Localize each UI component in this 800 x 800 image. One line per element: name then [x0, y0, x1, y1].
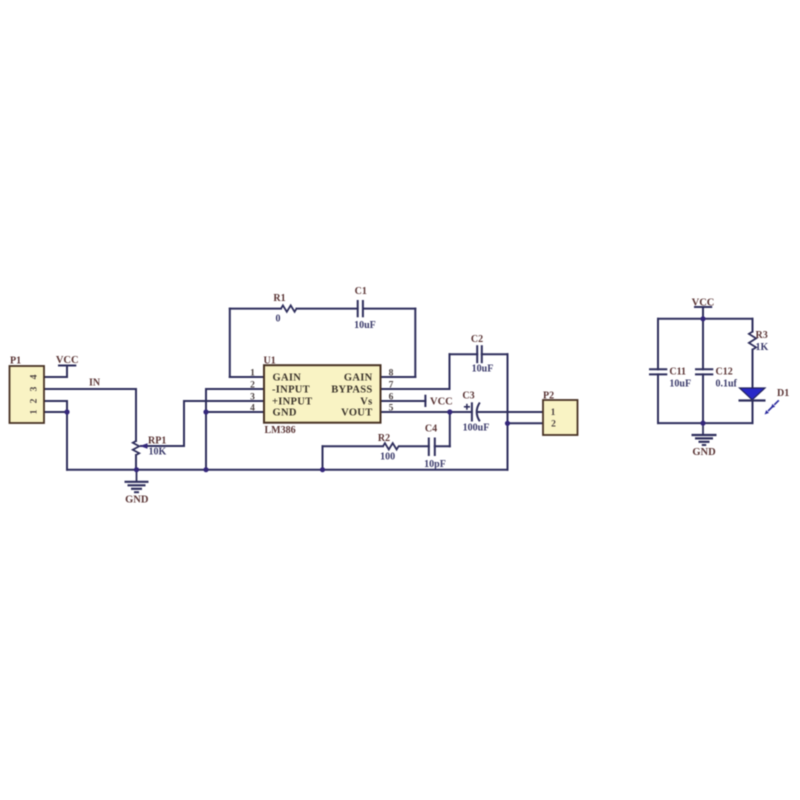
wire R2 to C4 [399, 445, 429, 447]
capacitor C4 [424, 423, 446, 470]
wire ground riser x206 [205, 389, 207, 470]
capacitor C11 [649, 366, 691, 389]
wire P1 pin1 stub [44, 411, 67, 413]
svg-text:2: 2 [551, 419, 556, 429]
svg-text:P1: P1 [10, 356, 21, 367]
capacitor C2 [471, 334, 493, 375]
power VCC right section [692, 298, 715, 309]
wire RP1 wiper horizontal [141, 445, 184, 447]
svg-text:GAIN: GAIN [344, 373, 373, 384]
svg-text:10uF: 10uF [669, 379, 691, 390]
svg-text:0: 0 [276, 314, 281, 325]
wire R3 top riser [752, 319, 754, 332]
wire C3 to P2 pin1 [478, 411, 544, 413]
svg-text:P2: P2 [543, 391, 554, 402]
svg-text:10uF: 10uF [354, 320, 376, 331]
svg-text:LM386: LM386 [265, 425, 296, 436]
svg-text:C4: C4 [425, 423, 437, 434]
wire R2 left [323, 445, 384, 447]
svg-text:10pF: 10pF [424, 459, 446, 470]
svg-text:3: 3 [30, 386, 40, 391]
svg-text:5: 5 [389, 404, 394, 414]
wire VOUT to C3 [381, 411, 472, 413]
svg-text:1: 1 [250, 369, 255, 379]
wire right rail riser [507, 354, 509, 470]
capacitor C1 [354, 286, 376, 331]
svg-text:Vs: Vs [360, 397, 372, 408]
wire C11 top riser [657, 319, 659, 370]
resistor R2 [378, 433, 399, 463]
wire P1 pin2 stub [44, 400, 67, 402]
op-amp IC U1 LM386 [250, 356, 394, 437]
svg-text:3: 3 [250, 393, 255, 403]
wire U1 GND stub [206, 411, 264, 413]
power VCC at U1 pin6 [425, 395, 452, 408]
svg-text:BYPASS: BYPASS [331, 385, 372, 396]
svg-text:C2: C2 [471, 334, 483, 345]
wire P2 pin2 [508, 422, 544, 424]
wire IN drop to RP1 [135, 389, 137, 441]
junction GND rail at RP1 [134, 467, 139, 472]
resistor R3 [749, 330, 769, 353]
svg-text:C11: C11 [669, 366, 686, 377]
connector P1 [10, 356, 45, 424]
wire R3 to D1 [752, 350, 754, 388]
svg-text:R3: R3 [756, 330, 768, 341]
wire RP1 bottom to rail [135, 455, 137, 470]
potentiometer RP1 [133, 436, 167, 458]
resistor R1 [273, 293, 296, 325]
ground symbol GND left [125, 470, 149, 506]
svg-text:R1: R1 [273, 293, 285, 304]
wire R1 to C1 [297, 308, 358, 310]
svg-text:GND: GND [692, 447, 716, 458]
junction VOUT node [447, 409, 452, 414]
svg-text:100uF: 100uF [463, 423, 490, 434]
svg-text:U1: U1 [264, 356, 276, 367]
ground symbol GND right [692, 423, 717, 458]
wire net IN from P1 pin3 [44, 388, 136, 390]
svg-text:8: 8 [389, 369, 394, 379]
capacitor C12 [695, 366, 738, 389]
wire C1 right [363, 308, 415, 310]
capacitor C3 polarized [462, 391, 489, 434]
svg-text:100: 100 [380, 452, 395, 463]
wire feedback right riser [414, 309, 416, 377]
wire top loop left [230, 308, 281, 310]
svg-text:D1: D1 [777, 388, 789, 399]
svg-text:IN: IN [89, 378, 101, 389]
svg-text:VCC: VCC [430, 397, 453, 408]
wire D1 to rail [752, 401, 754, 423]
power VCC at P1 [56, 355, 79, 366]
svg-text:7: 7 [389, 381, 394, 391]
svg-text:C1: C1 [355, 286, 367, 297]
wire C2 left [450, 353, 478, 355]
wire U1 pin6 stub to VCC [381, 400, 426, 402]
svg-text:2: 2 [250, 381, 255, 391]
svg-text:6: 6 [389, 393, 394, 403]
wire VCC riser right section [702, 307, 704, 319]
LED D1 [739, 388, 790, 415]
svg-text:10K: 10K [149, 447, 167, 458]
wire -INPUT stub [206, 388, 264, 390]
junction P2 pin2 node [505, 421, 510, 426]
wire C2 right [482, 353, 508, 355]
connector P2 [543, 391, 578, 436]
junction gnd riser at rail [203, 467, 208, 472]
wire VCC riser at P1 [66, 366, 68, 378]
wire P1 ground riser [66, 401, 68, 470]
svg-text:4: 4 [30, 374, 40, 379]
wire to +INPUT [184, 400, 264, 402]
svg-text:C12: C12 [716, 366, 733, 377]
wire U1 pin7 stub [381, 388, 450, 390]
svg-text:1K: 1K [756, 342, 769, 353]
wire zobel riser [449, 412, 451, 446]
junction zobel at rail [320, 467, 325, 472]
junction VCC rail right [700, 316, 705, 321]
svg-text:10uF: 10uF [472, 364, 494, 375]
svg-text:1: 1 [551, 408, 556, 418]
svg-text:R2: R2 [378, 433, 390, 444]
wire bottom rail right section [658, 422, 753, 424]
wire C12 top riser [702, 319, 704, 370]
wire U1 pin8 stub [381, 376, 416, 378]
wire pin7 riser to C2 [449, 354, 451, 389]
svg-text:GND: GND [125, 495, 149, 506]
svg-text:GAIN: GAIN [273, 373, 302, 384]
svg-text:VOUT: VOUT [341, 408, 372, 419]
junction GND rail right [700, 421, 705, 426]
svg-text:VCC: VCC [56, 355, 79, 366]
wire C12 bottom riser [702, 374, 704, 423]
wire C11 bottom riser [657, 374, 659, 423]
wire wiper riser [183, 401, 185, 446]
wire bottom ground rail [67, 469, 508, 471]
wire P1 pin4 stub [44, 376, 67, 378]
svg-text:2: 2 [30, 398, 40, 403]
wire U1 pin1 stub [230, 376, 264, 378]
junction at P1 pins 1-2 [64, 409, 69, 414]
wire C4 right [435, 445, 450, 447]
junction U1 GND stub [203, 409, 208, 414]
svg-text:+INPUT: +INPUT [272, 397, 312, 408]
svg-text:C3: C3 [462, 391, 474, 402]
wire zobel ground riser [322, 446, 324, 469]
svg-text:-INPUT: -INPUT [272, 385, 310, 396]
svg-text:0.1uf: 0.1uf [716, 379, 738, 390]
wire top rail right section [658, 318, 753, 320]
svg-text:4: 4 [250, 404, 255, 414]
wire feedback left riser [229, 309, 231, 377]
svg-text:1: 1 [30, 409, 40, 414]
svg-text:GND: GND [273, 408, 297, 419]
svg-text:RP1: RP1 [148, 436, 166, 447]
